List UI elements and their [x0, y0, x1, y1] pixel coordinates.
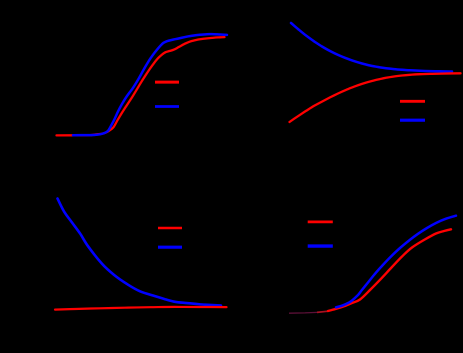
top-left legend blue sample	[155, 105, 179, 108]
top-right plot: red curve	[290, 73, 461, 122]
bottom-right legend blue sample	[308, 244, 333, 247]
top-right legend blue sample	[400, 119, 425, 122]
top-left legend red sample	[155, 81, 179, 84]
bottom-right dim baseline segment 1	[289, 311, 317, 314]
top-right legend red sample	[400, 100, 425, 103]
bottom-right dim baseline segment 2	[317, 311, 328, 312]
top-left plot: blue curve	[73, 34, 227, 135]
bottom-left plot: blue curve	[58, 199, 222, 306]
bottom-right plot: red curve	[328, 229, 451, 311]
bottom-right legend red sample	[308, 221, 333, 224]
bottom-left plot: red curve	[55, 307, 227, 310]
top-right plot: blue curve	[291, 23, 452, 72]
bottom-right plot: blue curve	[336, 216, 456, 308]
bottom-left legend blue sample	[158, 246, 182, 249]
top-left plot: red curve	[57, 37, 225, 135]
bottom-left legend red sample	[158, 227, 182, 229]
